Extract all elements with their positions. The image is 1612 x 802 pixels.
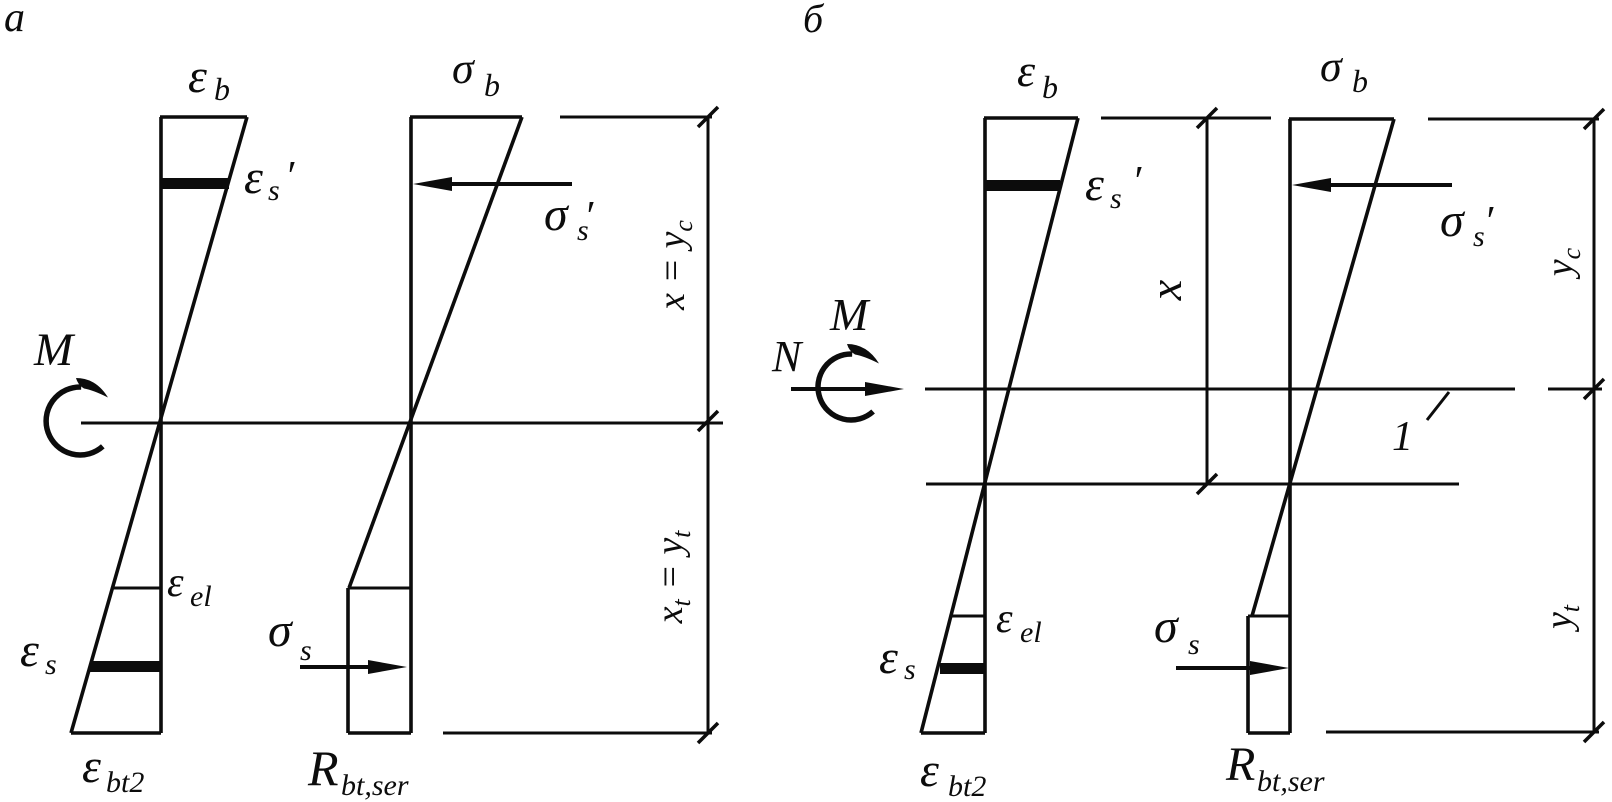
strain diagram top edge [160,115,247,119]
svg-text:ε: ε [1085,158,1104,211]
moment M arc [46,387,103,455]
tension block left edge [1246,616,1250,733]
dimension line vertical right [707,117,710,733]
svg-text:a: a [4,0,25,41]
x dimension extension line top [1101,117,1271,120]
svg-text:bt2: bt2 [106,766,144,799]
bottom reinforcement strain bar [940,663,985,674]
svg-text:ε: ε [167,560,184,606]
svg-text:s: s [904,653,916,686]
svg-text:M: M [33,324,76,376]
neutral axis line [926,483,1459,486]
svg-text:s: s [300,634,312,667]
svg-text:ε: ε [1017,45,1036,96]
strain diagram slant line [921,118,1078,733]
svg-text:R: R [307,740,339,796]
svg-text:b: b [484,67,500,103]
stress diagram slant line [1252,119,1394,616]
svg-text:′: ′ [285,154,295,200]
tension block bottom edge [1248,731,1290,735]
strain diagram axis (vertical) [159,117,163,733]
sigma_s arrow (right pointing) [1176,661,1289,675]
right dimension line vertical [1593,119,1596,732]
svg-text:ε: ε [920,744,939,797]
svg-text:el: el [190,580,212,613]
svg-text:ε: ε [20,624,39,677]
moment M arrowhead [847,344,879,364]
svg-text:R: R [1225,738,1255,791]
tick bottom [698,723,718,743]
leader line for node 1 [1427,392,1449,420]
svg-text:b: b [214,71,230,107]
moment M arrowhead [76,378,108,398]
sigma_s' arrow (left pointing) [413,177,572,191]
svg-text:ε: ε [82,740,101,793]
stress diagram slant line [349,117,522,588]
strain diagram top edge [984,116,1078,120]
centroid axis line (1) [925,388,1515,391]
x dimension line vertical [1206,118,1209,484]
svg-text:b: b [1352,63,1368,99]
svg-text:x: x [1140,279,1191,301]
tick right bottom [1584,722,1604,742]
tick right top [1584,109,1604,129]
stress diagram top edge [410,115,522,119]
svg-text:ε: ε [188,50,207,103]
moment M arc [818,354,873,420]
neutral axis line [81,422,723,425]
tension block bottom edge [348,731,411,735]
strain diagram bottom edge [921,731,985,735]
stress diagram top edge [1289,117,1394,121]
svg-text:σ: σ [544,188,570,241]
stress diagram axis (vertical) [1288,119,1292,733]
tick x bottom [1197,474,1217,494]
svg-text:s: s [45,648,57,681]
bottom reinforcement strain bar [90,661,161,672]
svg-text:б: б [803,0,825,41]
svg-text:N: N [771,332,804,381]
svg-text:s: s [268,174,280,207]
tension block top edge [1248,615,1290,618]
svg-text:′: ′ [1484,199,1494,245]
svg-text:σ: σ [1320,42,1344,91]
svg-text:1: 1 [1392,414,1413,460]
tension block top edge [348,587,411,590]
svg-text:′: ′ [1132,159,1142,205]
svg-text:bt2: bt2 [948,770,986,802]
svg-text:el: el [1020,616,1042,649]
svg-text:σ: σ [1440,194,1466,247]
svg-text:bt,ser: bt,ser [341,769,409,802]
svg-text:σ: σ [268,604,294,657]
svg-text:′: ′ [584,194,594,240]
label x_t = y_t rotated [649,530,696,625]
tick middle [698,411,718,431]
epsilon_el level line [951,615,985,618]
strain diagram slant line [71,117,247,733]
strain diagram axis (vertical) [983,118,987,733]
tension block left edge [346,588,350,733]
tick x top [1197,108,1217,128]
stress diagram axis (vertical) [409,117,413,733]
svg-text:ε: ε [244,151,263,204]
label x = y_c rotated [651,220,698,311]
svg-text:b: b [1042,69,1058,105]
svg-text:bt,ser: bt,ser [1257,765,1325,798]
sigma_s' arrow (left pointing) [1292,178,1452,192]
svg-text:ε: ε [996,596,1013,642]
svg-text:xt = yt: xt = yt [649,530,696,625]
strain diagram bottom edge [71,731,161,735]
centroid axis right segment [1548,388,1602,391]
right bottom extension line [1326,731,1599,734]
right top extension line [1428,118,1599,121]
svg-text:s: s [1473,220,1485,253]
top extension line [560,116,712,119]
label y_t rotated [1538,604,1585,633]
tick right middle [1584,379,1604,399]
svg-text:s: s [1188,628,1200,661]
bottom extension line [443,732,712,735]
label y_c rotated [1539,247,1586,280]
sigma_s arrow (right pointing) [300,660,407,674]
svg-text:σ: σ [452,44,476,93]
svg-text:ε: ε [879,631,898,684]
epsilon_el level line [113,587,161,590]
force N arrow [791,382,904,396]
svg-text:x = yc: x = yc [651,220,698,311]
svg-text:s: s [1110,182,1122,215]
tick top [698,107,718,127]
svg-text:M: M [829,289,871,340]
svg-text:σ: σ [1154,600,1180,653]
top reinforcement strain bar [161,178,229,189]
top reinforcement strain bar [986,180,1060,191]
